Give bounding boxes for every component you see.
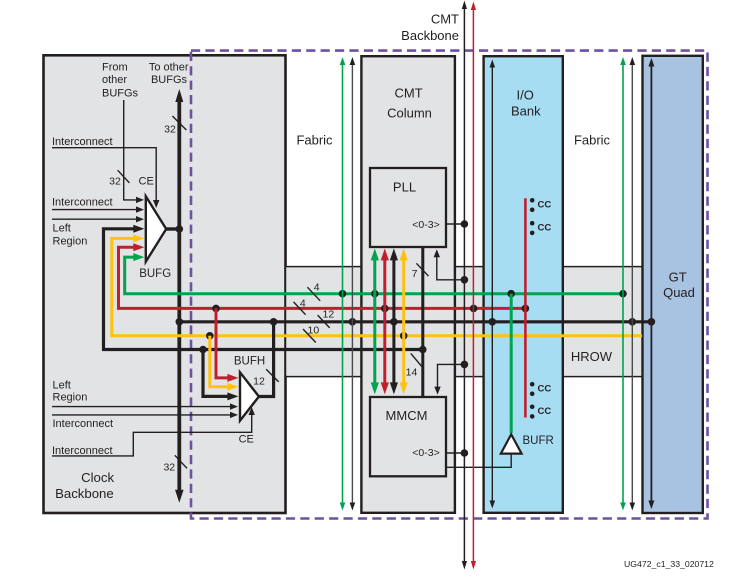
svg-text:32: 32 xyxy=(109,175,121,187)
node red BUFH tap xyxy=(212,305,220,313)
svg-text:4: 4 xyxy=(314,281,320,293)
wire CC dark red vertical xyxy=(524,198,527,417)
wire red tap into BUFH xyxy=(216,308,229,378)
wire CMT black vertical PLL/MMCM xyxy=(392,259,395,384)
wire CMT 7/14 black vertical xyxy=(421,247,424,397)
wire green to BUFR xyxy=(510,294,513,433)
svg-text:Region: Region xyxy=(53,392,88,404)
svg-text:<0-3>: <0-3> xyxy=(412,447,439,459)
svg-text:BUFG: BUFG xyxy=(139,268,171,280)
wire green clock xyxy=(125,257,623,294)
wire fabric right green vertical xyxy=(622,62,624,504)
wire CMT backbone red xyxy=(472,9,474,562)
clock backbone block xyxy=(44,55,286,513)
svg-text:<0-3>: <0-3> xyxy=(412,219,439,231)
pin CC 4 xyxy=(530,405,535,410)
bus slash 4 red xyxy=(294,302,306,315)
svg-text:other: other xyxy=(102,74,127,86)
pin CC 3 xyxy=(530,382,535,387)
svg-text:12: 12 xyxy=(253,376,265,388)
node red CMT backbone junction xyxy=(470,305,478,313)
svg-text:Left: Left xyxy=(53,222,71,234)
svg-text:Clock: Clock xyxy=(81,470,114,485)
node fabric right junction xyxy=(629,318,637,326)
svg-text:HROW: HROW xyxy=(571,349,613,364)
wire IO bank vertical xyxy=(491,63,493,502)
wire interconnect into BUFG xyxy=(52,209,136,211)
wire CMT green vertical PLL/MMCM xyxy=(373,259,376,384)
bus slash 12 BUFH xyxy=(266,369,279,382)
node GT quad junction xyxy=(648,318,656,326)
svg-text:12: 12 xyxy=(323,309,335,321)
wire BUFG output xyxy=(166,227,179,230)
svg-text:PLL: PLL xyxy=(393,180,416,195)
wire MMCM output 0-3 xyxy=(446,452,464,454)
svg-text:Left: Left xyxy=(53,380,71,392)
wire MMCM to BUFR xyxy=(446,455,511,468)
bus slash 12 hrow xyxy=(318,315,330,328)
svg-text:Fabric: Fabric xyxy=(296,132,333,147)
svg-text:MMCM: MMCM xyxy=(386,408,428,423)
wire yellow clock xyxy=(112,238,642,335)
svg-text:Column: Column xyxy=(387,106,432,121)
svg-text:UG472_c1_33_020712: UG472_c1_33_020712 xyxy=(624,559,714,569)
node yellow BUFH tap xyxy=(206,332,214,340)
wire HROW 12 black horizontal xyxy=(179,320,651,323)
svg-text:Region: Region xyxy=(53,235,88,247)
node green fabric junction xyxy=(339,290,347,298)
node CMT black junction xyxy=(390,318,398,326)
node red CMT junction xyxy=(381,305,389,313)
op-amp BUFR buffer triangle xyxy=(501,434,522,453)
svg-text:CE: CE xyxy=(139,175,154,187)
svg-text:Fabric: Fabric xyxy=(574,132,611,147)
svg-text:Interconnect: Interconnect xyxy=(52,445,113,457)
svg-text:CC: CC xyxy=(538,222,552,233)
svg-text:7: 7 xyxy=(412,268,418,280)
bus slash 4 green xyxy=(307,287,320,301)
HROW band xyxy=(286,267,643,377)
bus slash 32 mid xyxy=(118,170,130,183)
wire black tap into BUFH xyxy=(203,350,229,397)
node green fabric right junction xyxy=(619,290,627,298)
svg-text:From: From xyxy=(102,62,128,74)
node black trunk CMT tap xyxy=(419,346,427,354)
svg-text:4: 4 xyxy=(300,298,306,310)
svg-text:I/O: I/O xyxy=(517,88,534,103)
dashed region boundary xyxy=(191,51,708,519)
bus slash 32 top xyxy=(172,116,186,130)
wire left region into BUFH xyxy=(52,406,231,408)
svg-text:14: 14 xyxy=(406,367,418,379)
wire from other BUFGs into BUFG xyxy=(124,100,136,200)
svg-text:Interconnect: Interconnect xyxy=(52,197,113,209)
wire fabric right gray vertical xyxy=(631,62,633,504)
wire black trunk BUFG input feedback xyxy=(104,229,423,350)
pin CC 1 xyxy=(530,198,535,203)
op-amp BUFG buffer triangle xyxy=(146,196,166,261)
wire CMT backbone black xyxy=(463,8,465,562)
op-amp BUFH buffer triangle xyxy=(240,372,259,420)
wire CMT red vertical PLL/MMCM xyxy=(383,259,386,384)
svg-text:32: 32 xyxy=(164,124,176,136)
wire fabric left gray vertical xyxy=(351,62,353,504)
node fabric left junction xyxy=(349,318,357,326)
CMT column block xyxy=(361,56,455,513)
svg-text:Interconnect: Interconnect xyxy=(52,136,113,148)
GT quad block xyxy=(643,56,703,513)
node yellow CMT junction xyxy=(400,332,408,340)
svg-text:32: 32 xyxy=(163,462,175,474)
node green CMT junction xyxy=(371,290,379,298)
node red CC junction xyxy=(522,305,530,313)
svg-text:10: 10 xyxy=(308,325,320,337)
PLL block xyxy=(370,168,446,247)
svg-text:Bank: Bank xyxy=(511,103,541,118)
svg-text:Quad: Quad xyxy=(663,285,695,300)
wire backbone to MMCM input xyxy=(438,364,465,387)
node BUFG output junction xyxy=(176,225,184,233)
svg-text:BUFGs: BUFGs xyxy=(151,74,188,86)
wire left region into BUFG xyxy=(52,218,136,220)
wire fabric left green vertical xyxy=(342,62,344,504)
MMCM block xyxy=(370,397,446,476)
bus slash 10 yellow xyxy=(303,329,316,343)
wire interconnect to BUFH CE xyxy=(52,413,252,456)
svg-text:BUFR: BUFR xyxy=(523,435,554,447)
node IO bank junction xyxy=(489,318,497,326)
wire interconnect to BUFG CE xyxy=(52,148,156,200)
svg-text:Interconnect: Interconnect xyxy=(53,418,114,430)
node BUFH output junction xyxy=(270,318,278,326)
node green BUFR junction xyxy=(507,290,515,298)
svg-text:CE: CE xyxy=(239,434,254,446)
wire GT quad vertical xyxy=(650,63,652,502)
svg-text:CMT: CMT xyxy=(395,86,423,101)
wire CMT yellow vertical PLL/MMCM xyxy=(402,259,405,384)
svg-text:To other: To other xyxy=(149,62,189,74)
svg-text:CC: CC xyxy=(538,200,552,211)
svg-text:CC: CC xyxy=(538,384,552,395)
svg-text:BUFH: BUFH xyxy=(234,356,265,368)
wire interconnect into BUFH xyxy=(52,414,231,416)
svg-text:BUFGs: BUFGs xyxy=(102,87,139,99)
svg-text:GT: GT xyxy=(669,269,687,284)
svg-text:Backbone: Backbone xyxy=(55,486,114,501)
svg-text:CC: CC xyxy=(538,406,552,417)
bus slash 32 bottom xyxy=(175,455,187,468)
wire vertical clock backbone trunk 32 xyxy=(177,100,181,491)
I/O bank block xyxy=(484,56,563,513)
bus slash 7 xyxy=(416,263,428,276)
wire BUFH output 12 xyxy=(259,322,274,397)
pin CC 2 xyxy=(530,221,535,226)
wire backbone to PLL input xyxy=(437,256,465,280)
wire PLL output 0-3 xyxy=(446,223,464,225)
node backbone junction xyxy=(176,318,184,326)
bus slash 14 xyxy=(411,353,424,368)
wire yellow tap into BUFH xyxy=(210,336,229,387)
svg-text:Backbone: Backbone xyxy=(401,28,459,43)
wire red clock xyxy=(119,247,526,308)
svg-text:CMT: CMT xyxy=(431,12,459,27)
node black trunk BUFH tap xyxy=(199,346,207,354)
